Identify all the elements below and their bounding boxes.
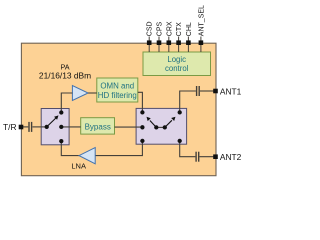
svg-text:control: control	[165, 64, 189, 73]
wire capacitor C2 to ANT1 port	[200, 90, 216, 92]
pin ANT_SEL	[198, 5, 205, 52]
svg-text:T/R: T/R	[3, 122, 17, 132]
wire capacitor C1 to S1 pole	[33, 126, 47, 128]
svg-text:CSD: CSD	[147, 21, 154, 36]
logic control block	[143, 52, 211, 76]
switch S2 contacts	[140, 110, 182, 143]
svg-text:HD filtering: HD filtering	[98, 91, 137, 100]
svg-text:CPS: CPS	[157, 21, 164, 36]
wire S2 bottom-right contact to capacitor C3	[180, 141, 196, 157]
capacitor C3 (ANT2 blocking cap)	[196, 152, 199, 162]
wire capacitor C3 to ANT2 port	[199, 156, 215, 158]
switch S2 body (DPDT antenna switch)	[136, 108, 187, 144]
PA value label 21/16/13 dBm	[39, 62, 91, 80]
svg-text:CHL: CHL	[186, 22, 193, 36]
wire LNA input to S2 bottom-left contact	[95, 141, 142, 156]
switch S1 body (SP3T T/R switch)	[41, 109, 69, 145]
svg-text:ANT_SEL: ANT_SEL	[198, 5, 205, 36]
module outline (front-end module body)	[21, 43, 216, 176]
switch S1 arm arrow	[47, 115, 59, 127]
op-amp PA (power amplifier triangle)	[72, 86, 88, 101]
Bypass block	[81, 118, 115, 134]
pin CHL	[186, 22, 193, 52]
svg-text:ANT1: ANT1	[220, 86, 242, 96]
wire Bypass to S2 mid-left contact	[115, 126, 143, 128]
wire PA output to OMN	[88, 92, 97, 94]
wire S1 bottom throw to LNA output	[61, 141, 79, 156]
op-amp LNA (low-noise amplifier triangle)	[79, 148, 95, 164]
port T/R	[3, 122, 23, 132]
wire S2 center contacts link	[156, 126, 164, 128]
svg-text:Logic: Logic	[167, 55, 186, 64]
wire S1 top throw to PA input	[61, 93, 72, 113]
svg-text:OMN and: OMN and	[100, 82, 134, 91]
switch S2 left arm arrow	[147, 117, 157, 128]
port ANT2	[213, 152, 241, 162]
port ANT1	[213, 86, 241, 96]
OMN and HD filtering block	[97, 78, 138, 102]
wire S2 top-right contact to capacitor C2	[180, 91, 196, 112]
capacitor C2 (ANT1 blocking cap)	[197, 86, 200, 96]
wire T/R port to capacitor C1	[23, 126, 28, 128]
svg-text:CRX: CRX	[166, 21, 173, 36]
svg-text:21/16/13 dBm: 21/16/13 dBm	[39, 71, 91, 81]
wire OMN output to S2 top-left contact	[138, 92, 143, 112]
svg-text:ANT2: ANT2	[220, 152, 242, 162]
pin CSD	[147, 21, 154, 52]
switch S2 right arm arrow	[165, 117, 176, 128]
wire S1 middle throw to Bypass	[61, 126, 80, 128]
pin CTX	[176, 22, 183, 52]
capacitor C1 (T/R blocking cap)	[29, 122, 32, 132]
svg-text:CTX: CTX	[176, 22, 183, 36]
pin CRX	[166, 21, 173, 52]
svg-text:LNA: LNA	[71, 162, 86, 171]
pin CPS	[157, 21, 164, 52]
switch S1 contacts	[45, 110, 64, 143]
svg-text:Bypass: Bypass	[85, 123, 111, 132]
